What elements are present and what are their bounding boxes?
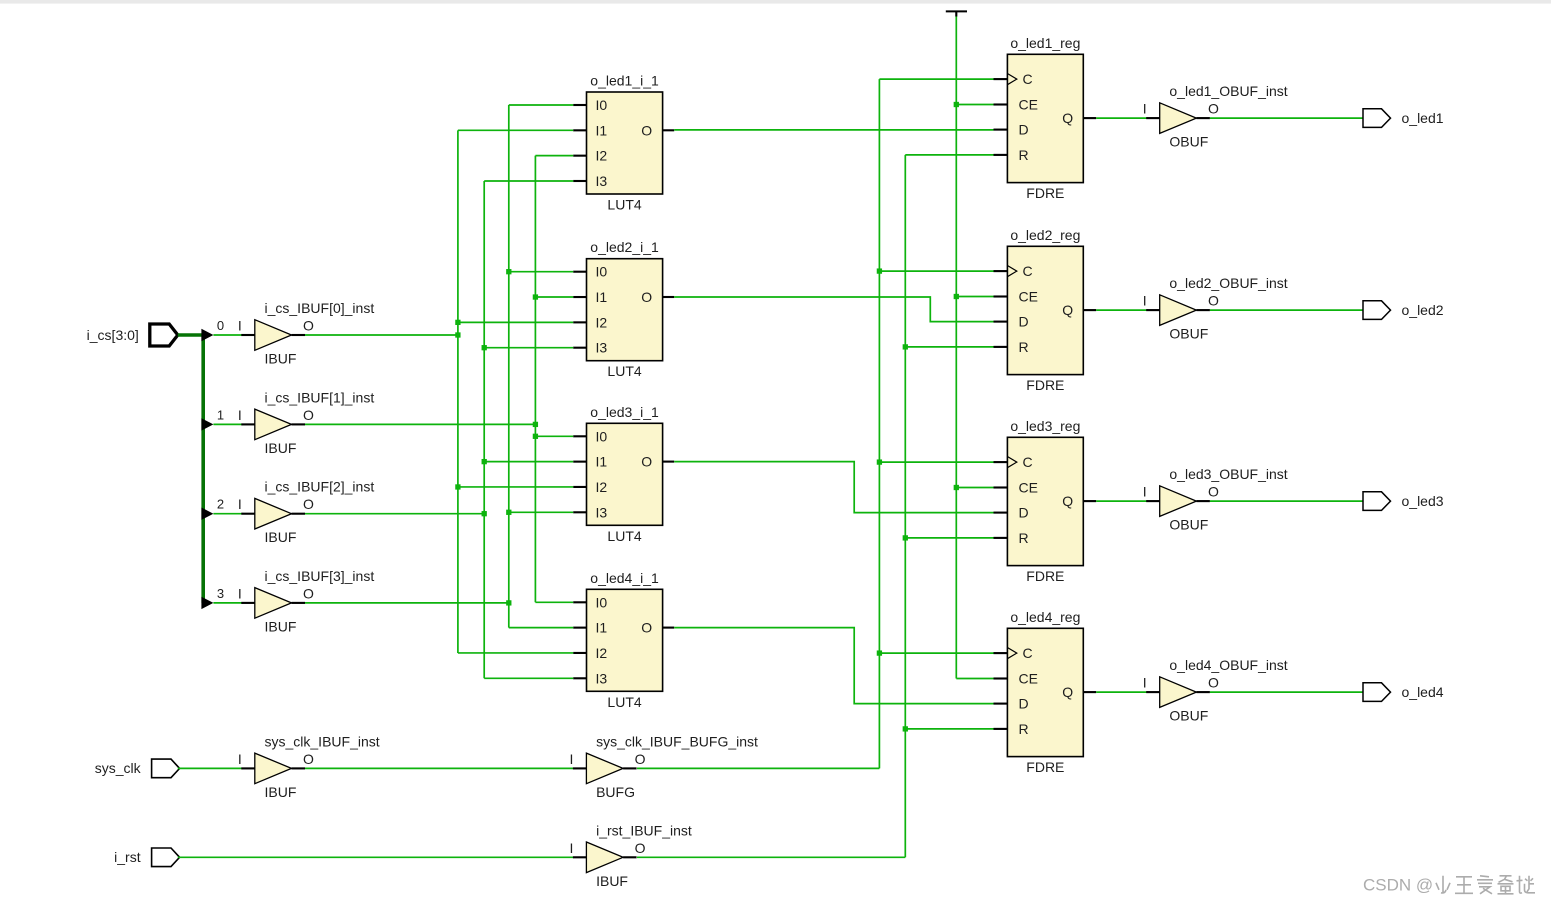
wire net i_cs_IBUF[3] vertical rail [508,105,510,628]
junction net rst at o_led2_reg R [903,344,908,349]
wire bus tap 3 to IBUF input [213,602,243,604]
svg-text:o_led2_OBUF_inst: o_led2_OBUF_inst [1169,275,1287,291]
junction net i_cs_IBUF[2] at o_led2_i_1 I3 [482,345,487,350]
junction net i_cs_IBUF[1] at o_led2_i_1 I1 [533,294,538,299]
svg-text:I2: I2 [596,479,608,495]
svg-text:R: R [1019,147,1029,163]
wire net clk to o_led4_reg C [879,652,993,654]
svg-text:C: C [1023,71,1033,87]
svg-text:IBUF: IBUF [265,529,297,545]
wire net i_cs_IBUF[1] to o_led3_i_1 I0 [535,435,573,437]
svg-text:2: 2 [217,497,224,512]
svg-text:I2: I2 [596,148,608,164]
wire net o_led2_OBUF to output port [1210,309,1363,311]
buffer U-IBUF3 i_cs_IBUF[3]_inst (IBUF) [238,568,374,635]
buffer U-IBUF1 i_cs_IBUF[1]_inst (IBUF) [238,389,374,456]
svg-text:IBUF: IBUF [265,618,297,634]
svg-text:o_led3_reg: o_led3_reg [1010,418,1080,434]
wire net o_led1_i_1 O to o_led1_reg D [674,129,993,131]
wire net o_led4_i_1 O to o_led4_reg D (jog) [674,628,993,704]
svg-text:i_cs_IBUF[1]_inst: i_cs_IBUF[1]_inst [265,389,375,405]
wire net clk to o_led1_reg C [879,78,993,80]
svg-text:o_led4_OBUF_inst: o_led4_OBUF_inst [1169,657,1287,673]
svg-text:sys_clk_IBUF_inst: sys_clk_IBUF_inst [265,733,380,749]
svg-text:O: O [641,454,652,470]
svg-text:C: C [1023,645,1033,661]
svg-text:i_cs_IBUF[2]_inst: i_cs_IBUF[2]_inst [265,479,375,495]
wire net const1 to o_led4_reg CE [956,678,993,680]
buffer U-BUFG sys_clk_IBUF_BUFG_inst (BUFG) [569,733,758,800]
svg-text:D: D [1019,696,1029,712]
svg-text:0: 0 [217,318,224,333]
wire bus tap 0 to IBUF input [213,334,243,336]
svg-text:I: I [238,496,242,512]
buffer U-OBUF2 o_led2_OBUF_inst (OBUF) [1143,275,1288,342]
svg-text:o_led2: o_led2 [1402,302,1444,318]
wire net o_led4_reg Q to OBUF [1096,691,1148,693]
svg-text:I0: I0 [596,264,608,280]
svg-text:I2: I2 [596,645,608,661]
wire net i_cs_IBUF[1] to o_led1_i_1 I2 [535,155,573,157]
junction net i_cs_IBUF[2] at o_led3_i_1 I1 [482,459,487,464]
svg-text:i_cs_IBUF[3]_inst: i_cs_IBUF[3]_inst [265,568,375,584]
svg-text:OBUF: OBUF [1169,517,1208,533]
wire net const1 to o_led1_reg CE [956,104,993,106]
junction net i_cs_IBUF[0] at o_led2_i_1 I2 [455,320,460,325]
wire net sys_clk_IBUF to BUFG [305,767,577,769]
svg-text:I1: I1 [596,620,608,636]
wire net i_cs_IBUF[2] to o_led2_i_1 I3 [484,347,573,349]
bus tap bit 2 [201,497,224,520]
buffer U-CLKIBUF sys_clk_IBUF_inst (IBUF) [238,733,380,800]
svg-text:O: O [635,751,646,767]
wire net o_led3_reg Q to OBUF [1096,500,1148,502]
junction net i_cs_IBUF[2] at IBUF[2] output [482,511,487,516]
svg-text:IBUF: IBUF [265,351,297,367]
svg-text:IBUF: IBUF [596,873,628,889]
junction net clk at o_led3_reg C [877,459,882,464]
flip-flop o_led1_reg (FDRE) [994,35,1097,201]
wire net i_cs_IBUF[3] from IBUF output to rail [305,602,509,604]
output port o_led2 [1363,301,1444,320]
wire net rst to o_led2_reg R [905,346,993,348]
wire net o_led4_OBUF to output port [1210,691,1363,693]
svg-text:O: O [303,585,314,601]
svg-text:I0: I0 [596,97,608,113]
LUT4 o_led4_i_1 [573,570,674,710]
svg-text:i_rst: i_rst [114,849,141,865]
svg-text:3: 3 [217,586,224,601]
svg-text:I0: I0 [596,594,608,610]
wire net i_cs_IBUF[1] vertical rail [534,156,536,603]
svg-text:C: C [1023,454,1033,470]
svg-text:D: D [1019,122,1029,138]
wire net const1 to o_led2_reg CE [956,296,993,298]
svg-text:O: O [303,407,314,423]
svg-text:R: R [1019,339,1029,355]
wire net const1 to o_led3_reg CE [956,487,993,489]
svg-text:I: I [1143,484,1147,500]
wire net i_cs_IBUF[1] from IBUF output to rail [305,423,535,425]
wire bus tap 1 to IBUF input [213,423,243,425]
svg-text:FDRE: FDRE [1026,185,1064,201]
svg-text:BUFG: BUFG [596,784,635,800]
svg-text:O: O [303,496,314,512]
wire net i_rst port to IBUF [178,856,574,858]
junction net rst at o_led3_reg R [903,535,908,540]
svg-text:I: I [569,751,573,767]
wire net o_led3_OBUF to output port [1210,500,1363,502]
svg-text:I2: I2 [596,314,608,330]
watermark CJK glyphs [1436,876,1535,894]
svg-text:I3: I3 [596,504,608,520]
svg-text:O: O [635,840,646,856]
wire net i_cs_IBUF[0] vertical rail [457,130,459,653]
wire net i_cs_IBUF[2] vertical rail [483,181,485,678]
input port i_cs[3:0] [87,324,178,346]
LUT4 o_led3_i_1 [573,404,674,544]
svg-text:I: I [1143,675,1147,691]
junction net i_cs_IBUF[3] at IBUF[3] output [506,600,511,605]
buffer U-OBUF4 o_led4_OBUF_inst (OBUF) [1143,657,1288,724]
svg-text:Q: Q [1062,684,1073,700]
wire net rst to o_led3_reg R [905,537,993,539]
svg-text:1: 1 [217,407,224,422]
svg-text:i_cs[3:0]: i_cs[3:0] [87,327,139,343]
wire net clk to o_led3_reg C [879,461,993,463]
svg-text:i_rst_IBUF_inst: i_rst_IBUF_inst [596,822,692,838]
wire net const1 (VCC) vertical rail [955,17,957,679]
wire net i_cs_IBUF[3] to o_led3_i_1 I3 [509,511,573,513]
wire net i_cs_IBUF[1] to o_led4_i_1 I0 [535,601,573,603]
wire net i_cs_IBUF[2] to o_led4_i_1 I3 [484,677,573,679]
flip-flop o_led4_reg (FDRE) [994,609,1097,775]
junction net const1 at o_led3_reg CE [954,485,959,490]
svg-text:LUT4: LUT4 [607,694,641,710]
junction net clk at o_led2_reg C [877,268,882,273]
svg-text:O: O [1208,293,1219,309]
wire net i_cs_IBUF[0] to o_led1_i_1 I1 [458,129,573,131]
wire net o_led1_reg Q to OBUF [1096,117,1148,119]
wire net i_cs_IBUF[3] to o_led4_i_1 I1 [509,627,573,629]
junction net i_cs_IBUF[0] at IBUF[0] output [455,332,460,337]
svg-text:O: O [1208,675,1219,691]
junction net rst at o_led4_reg R [903,726,908,731]
flip-flop o_led3_reg (FDRE) [994,418,1097,584]
svg-text:O: O [1208,484,1219,500]
svg-text:I: I [238,407,242,423]
wire net i_cs_IBUF[1] to o_led2_i_1 I1 [535,296,573,298]
bus tap bit 3 [201,586,224,609]
svg-text:LUT4: LUT4 [607,528,641,544]
svg-text:o_led3_OBUF_inst: o_led3_OBUF_inst [1169,466,1287,482]
wire net i_cs_IBUF[0] to o_led4_i_1 I2 [458,652,573,654]
svg-text:D: D [1019,505,1029,521]
wire net clk vertical rail [878,79,880,768]
LUT4 o_led1_i_1 [573,73,674,213]
bus i_cs[3:0] vertical segment [201,333,205,603]
wire net clk (BUFG output) horizontal [637,767,879,769]
svg-text:o_led1_i_1: o_led1_i_1 [590,73,659,89]
input port i_rst [114,848,179,867]
svg-text:CE: CE [1019,671,1038,687]
svg-text:OBUF: OBUF [1169,708,1208,724]
svg-text:I3: I3 [596,173,608,189]
buffer U-OBUF1 o_led1_OBUF_inst (OBUF) [1143,83,1288,150]
flip-flop o_led2_reg (FDRE) [994,227,1097,393]
svg-text:i_cs_IBUF[0]_inst: i_cs_IBUF[0]_inst [265,300,375,316]
svg-text:LUT4: LUT4 [607,363,641,379]
svg-text:I: I [1143,293,1147,309]
svg-text:IBUF: IBUF [265,784,297,800]
svg-text:FDRE: FDRE [1026,377,1064,393]
wire net o_led2_reg Q to OBUF [1096,309,1148,311]
svg-text:I: I [569,840,573,856]
wire net clk to o_led2_reg C [879,270,993,272]
svg-text:R: R [1019,721,1029,737]
svg-text:I: I [238,318,242,334]
wire net i_cs_IBUF[0] to o_led2_i_1 I2 [458,321,573,323]
junction net i_cs_IBUF[3] at o_led3_i_1 I3 [506,510,511,515]
wire net i_cs_IBUF[2] to o_led1_i_1 I3 [484,180,573,182]
LUT4 o_led2_i_1 [573,239,674,379]
junction net const1 at o_led2_reg CE [954,294,959,299]
svg-text:o_led2_reg: o_led2_reg [1010,227,1080,243]
svg-text:O: O [303,751,314,767]
svg-text:o_led1_reg: o_led1_reg [1010,35,1080,51]
svg-text:Q: Q [1062,302,1073,318]
svg-text:O: O [641,122,652,138]
bus tap bit 0 [201,318,224,341]
svg-text:o_led4_reg: o_led4_reg [1010,609,1080,625]
bus tap bit 1 [201,407,224,430]
svg-text:LUT4: LUT4 [607,197,641,213]
wire sys_clk port to IBUF [178,767,243,769]
output port o_led1 [1363,109,1444,128]
svg-text:Q: Q [1062,110,1073,126]
wire net o_led3_i_1 O to o_led3_reg D (jog) [674,462,993,513]
svg-text:CSDN @: CSDN @ [1363,876,1433,895]
wire net rst (i_rst_IBUF output) horizontal [637,856,905,858]
wire net rst to o_led1_reg R [905,154,993,156]
svg-text:IBUF: IBUF [265,440,297,456]
svg-text:o_led4: o_led4 [1402,684,1444,700]
svg-text:OBUF: OBUF [1169,326,1208,342]
junction net const1 at o_led1_reg CE [954,102,959,107]
junction net i_cs_IBUF[1] at IBUF[1] output [533,422,538,427]
wire net i_cs_IBUF[0] from IBUF output to rail [305,334,458,336]
wire net o_led2_i_1 O to o_led2_reg D (jog) [674,297,993,322]
svg-text:o_led1_OBUF_inst: o_led1_OBUF_inst [1169,83,1287,99]
svg-text:I: I [238,751,242,767]
junction net i_cs_IBUF[0] at o_led3_i_1 I2 [455,484,460,489]
wire net o_led1_OBUF to output port [1210,117,1363,119]
buffer U-RSTIBUF i_rst_IBUF_inst (IBUF) [569,822,691,889]
svg-text:O: O [1208,101,1219,117]
junction net i_cs_IBUF[1] at o_led3_i_1 I0 [533,434,538,439]
svg-text:sys_clk_IBUF_BUFG_inst: sys_clk_IBUF_BUFG_inst [596,733,758,749]
input port sys_clk [95,759,180,778]
wire net i_cs_IBUF[3] to o_led1_i_1 I0 [509,104,573,106]
output port o_led3 [1363,492,1444,511]
svg-text:I: I [238,585,242,601]
svg-text:O: O [641,620,652,636]
svg-text:OBUF: OBUF [1169,134,1208,150]
svg-text:Q: Q [1062,493,1073,509]
buffer U-IBUF2 i_cs_IBUF[2]_inst (IBUF) [238,479,374,546]
wire net rst to o_led4_reg R [905,728,993,730]
svg-text:C: C [1023,263,1033,279]
buffer U-OBUF3 o_led3_OBUF_inst (OBUF) [1143,466,1288,532]
svg-text:o_led1: o_led1 [1402,110,1444,126]
wire net rst vertical rail [904,155,906,857]
svg-text:I: I [1143,101,1147,117]
svg-text:FDRE: FDRE [1026,568,1064,584]
svg-text:o_led3: o_led3 [1402,493,1444,509]
wire net i_cs_IBUF[2] to o_led3_i_1 I1 [484,461,573,463]
svg-text:O: O [303,318,314,334]
svg-text:R: R [1019,530,1029,546]
svg-text:CE: CE [1019,97,1038,113]
power VCC symbol [946,11,967,16]
svg-text:D: D [1019,314,1029,330]
svg-text:CE: CE [1019,480,1038,496]
junction net clk at o_led4_reg C [877,650,882,655]
svg-text:CE: CE [1019,289,1038,305]
svg-text:I3: I3 [596,340,608,356]
svg-text:I1: I1 [596,289,608,305]
svg-text:FDRE: FDRE [1026,759,1064,775]
svg-text:I0: I0 [596,428,608,444]
buffer U-IBUF0 i_cs_IBUF[0]_inst (IBUF) [238,300,374,367]
wire net i_cs_IBUF[2] from IBUF output to rail [305,513,484,515]
svg-text:sys_clk: sys_clk [95,760,142,776]
wire net i_cs_IBUF[0] to o_led3_i_1 I2 [458,486,573,488]
junction net i_cs_IBUF[3] at o_led2_i_1 I0 [506,269,511,274]
wire net i_cs_IBUF[3] to o_led2_i_1 I0 [509,271,573,273]
svg-text:O: O [641,289,652,305]
wire bus tap 2 to IBUF input [213,513,243,515]
svg-text:o_led4_i_1: o_led4_i_1 [590,570,659,586]
svg-text:I1: I1 [596,454,608,470]
svg-text:o_led2_i_1: o_led2_i_1 [590,239,659,255]
svg-text:o_led3_i_1: o_led3_i_1 [590,404,659,420]
svg-text:I1: I1 [596,122,608,138]
svg-text:I3: I3 [596,670,608,686]
output port o_led4 [1363,683,1444,702]
bus i_cs[3:0] horizontal segment [178,333,203,337]
